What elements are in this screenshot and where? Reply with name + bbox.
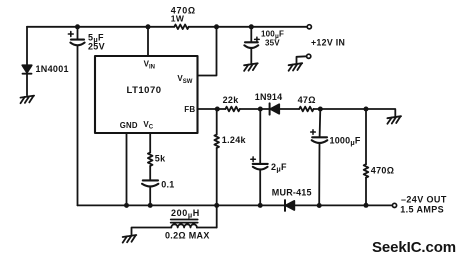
wire bottom rail right segment [294, 204, 392, 206]
node junction 1000uF/bottom rail [317, 203, 322, 208]
ground (inductor return) [123, 235, 137, 243]
node +12V return terminal [307, 54, 311, 58]
wire 5k to 0.1 [149, 166, 151, 180]
node junction 470ohm/FB rail [364, 107, 369, 112]
capacitor C4 2uF [251, 157, 268, 170]
node junction VSW/top rail [214, 24, 219, 29]
svg-text:0.1: 0.1 [161, 179, 174, 189]
resistor R5 1.24k [214, 135, 219, 148]
svg-text:1N4001: 1N4001 [36, 64, 69, 74]
wire 1000uF branch upper [319, 109, 322, 137]
svg-text:FB: FB [184, 105, 195, 114]
svg-text:SeekIC.com: SeekIC.com [372, 239, 456, 256]
svg-text:200µH: 200µH [171, 208, 200, 220]
ground (right end of FB rail) [387, 116, 401, 124]
svg-text:22k: 22k [223, 95, 240, 105]
wire FB node to 1.24k [216, 109, 218, 135]
svg-text:47Ω: 47Ω [298, 95, 316, 105]
wire FB pin to node [198, 108, 226, 110]
svg-text:1000µF: 1000µF [330, 135, 361, 147]
svg-text:–24V OUT: –24V OUT [401, 194, 447, 204]
resistor R3 22k [225, 107, 239, 112]
node junction 2uF/FB rail [258, 107, 263, 112]
ground (+12V return) [289, 63, 303, 71]
node junction 1000uF/FB rail [318, 107, 323, 112]
wire inductor to 1.24k node [197, 227, 217, 229]
svg-text:0.2Ω MAX: 0.2Ω MAX [165, 231, 210, 241]
diode D1 1N4001 [22, 65, 31, 95]
wire 2uF to bottom rail [259, 170, 261, 206]
svg-text:1.5 AMPS: 1.5 AMPS [400, 205, 444, 215]
ground (under 1N4001) [21, 96, 35, 104]
wire 5uF down to bottom rail [77, 46, 79, 206]
resistor R 470ohm 1W (top) [174, 25, 188, 30]
wire inductor to ground [132, 228, 172, 236]
svg-text:5k: 5k [155, 154, 166, 164]
node junction 100uF/top rail [249, 24, 254, 29]
diode D3 MUR-415 [285, 200, 294, 211]
wire 2uF branch upper [259, 109, 261, 164]
resistor R4 47ohm [299, 107, 313, 112]
wire bottom rail left segment [78, 204, 286, 206]
wire 0.1 to bottom rail [149, 187, 151, 206]
diode D2 1N914 [270, 103, 280, 114]
node junction 470ohm/bottom rail [364, 203, 369, 208]
capacitor C5 1000uF [311, 130, 328, 143]
capacitor C2 100uF 35V [244, 27, 259, 64]
node -24V output terminal [392, 203, 396, 207]
capacitor C3 0.1 [142, 180, 158, 186]
wire GND pin to bottom rail [126, 133, 128, 205]
svg-text:1.24k: 1.24k [222, 135, 247, 145]
node junction VC branch/bottom rail [148, 203, 153, 208]
svg-text:1W: 1W [171, 13, 185, 23]
svg-text:MUR-415: MUR-415 [272, 187, 312, 197]
node junction GND/bottom rail [124, 203, 129, 208]
svg-text:470Ω: 470Ω [371, 165, 394, 175]
ground (under 100uF) [244, 63, 258, 71]
resistor R6 470ohm (right) [364, 164, 369, 177]
svg-text:LT1070: LT1070 [127, 85, 162, 96]
wire 1.24k to bottom rail and inductor [216, 148, 218, 228]
wire top rail left segment [27, 26, 174, 28]
capacitor C1 5uF 25V [68, 27, 84, 46]
value label 100uF 35V [261, 30, 284, 48]
value label 470ohm 1W [171, 5, 196, 23]
value label 5uF 25V [88, 33, 105, 52]
node junction 1.24k/bottom rail [214, 203, 219, 208]
node FB junction [215, 107, 220, 112]
wire top rail right segment [189, 26, 308, 28]
svg-text:35V: 35V [265, 38, 280, 47]
inductor L1 200uH [171, 220, 198, 228]
svg-text:25V: 25V [88, 42, 105, 52]
wire VSW to top rail [198, 27, 217, 76]
node +12V input terminal [307, 25, 311, 29]
svg-text:1N914: 1N914 [255, 92, 283, 102]
wire 470ohm right branch upper [365, 109, 367, 164]
wire 470ohm to bottom rail [365, 178, 367, 206]
svg-text:2µF: 2µF [271, 162, 287, 174]
node junction VIN/top rail [146, 24, 151, 29]
op-amp U1 LT1070 box [95, 56, 198, 133]
resistor R2 5k [148, 153, 153, 166]
node junction 2uF/bottom rail [258, 203, 263, 208]
wire +12V return to ground [297, 56, 307, 63]
node junction 5uF/top rail [75, 24, 80, 29]
wire VC pin down [149, 133, 151, 153]
wire left branch vertical [26, 27, 28, 66]
wire 1000uF to bottom rail [318, 143, 320, 206]
wire 22k to 1N914 [240, 108, 270, 110]
wire 47ohm to ground corner [314, 109, 396, 117]
wire VIN vertical [147, 27, 149, 56]
wire 1N914 to 47ohm [279, 108, 299, 110]
svg-text:+12V IN: +12V IN [311, 38, 345, 48]
svg-text:GND: GND [120, 121, 138, 130]
